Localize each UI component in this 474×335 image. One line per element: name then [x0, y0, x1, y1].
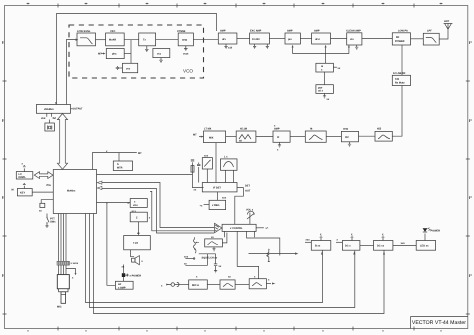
wire	[411, 38, 424, 40]
svg-text:Rx Mute: Rx Mute	[395, 82, 405, 85]
block: ceramic filter	[305, 128, 326, 143]
wire	[96, 39, 106, 41]
PTT switch	[45, 214, 56, 228]
block: battery save	[305, 236, 331, 250]
bus: LCD to CPU (hollow arrow)	[34, 172, 53, 179]
block: vco cap	[153, 49, 170, 63]
block: audio power amp	[115, 281, 133, 289]
wire	[207, 284, 220, 286]
svg-text:AMP: AMP	[287, 30, 293, 33]
block: antenna low-pass filter	[423, 30, 439, 45]
wire	[179, 284, 189, 286]
wire	[156, 39, 179, 41]
svg-text:MTR: MTR	[117, 167, 123, 170]
wire: VCO output to TX chain	[193, 39, 218, 41]
svg-text:LED xx: LED xx	[420, 245, 429, 248]
svg-text:xxx: xxx	[204, 154, 209, 157]
wire: T/R drop	[401, 45, 403, 75]
svg-text:VCO: VCO	[183, 69, 193, 74]
svg-text:LOW SGNL: LOW SGNL	[77, 30, 91, 33]
svg-text:L x: L x	[224, 156, 228, 159]
block: TX buffer 1	[218, 30, 237, 50]
svg-text:xxx: xxx	[306, 238, 311, 241]
svg-text:MvAR: MvAR	[109, 39, 116, 42]
wire	[326, 136, 341, 138]
wire: mixer IF drop to demod	[215, 143, 217, 183]
block: RX mixer	[193, 128, 226, 143]
svg-text:XTNNE: XTNNE	[177, 30, 186, 33]
squelch cap	[214, 254, 222, 273]
bus: CPU to synthesizer (hollow arrow)	[57, 114, 67, 170]
block: PL tone	[124, 232, 151, 250]
squelch contact 1	[184, 256, 218, 260]
bus: CPU to audio (3 nested lines)	[97, 181, 214, 233]
wire	[362, 38, 392, 40]
wire	[290, 136, 305, 138]
svg-text:POWER: POWER	[431, 230, 441, 233]
block: PLL synthesizer	[36, 105, 83, 114]
wire	[235, 284, 249, 286]
svg-text:DET: DET	[245, 185, 250, 188]
block: TX amp 3	[285, 30, 300, 44]
block: phase det	[98, 49, 131, 59]
crystal + cap left of demod	[191, 160, 204, 192]
svg-text:xGx: xGx	[133, 204, 138, 207]
svg-text:IF DET: IF DET	[213, 187, 221, 190]
wire mic to mod line	[266, 279, 275, 285]
wire: CPU right to demod	[97, 174, 193, 176]
svg-text:T/R: T/R	[395, 78, 399, 81]
wire	[256, 136, 273, 138]
wire: S-meter line	[93, 150, 143, 170]
svg-text:amp: amp	[343, 128, 349, 131]
wire	[300, 38, 311, 40]
block: IF amp 1	[273, 125, 290, 152]
svg-text:OUT: OUT	[245, 190, 251, 193]
svg-text:x REG: x REG	[212, 204, 220, 207]
wire: det to audio amp drop	[107, 203, 116, 285]
svg-text:MT: MT	[98, 53, 102, 56]
ground below squelch filter	[212, 247, 215, 251]
wire to antenna	[439, 29, 448, 39]
wire: synth control line top loop	[57, 14, 217, 105]
svg-text:LPF: LPF	[427, 30, 432, 33]
svg-text:drvr: drvr	[315, 38, 320, 41]
svg-text:LT MX: LT MX	[204, 128, 212, 131]
svg-text:MT: MT	[193, 134, 197, 137]
wires below connector	[59, 265, 77, 279]
block: 455 filter	[375, 128, 392, 141]
svg-text:xxx: xxx	[184, 256, 189, 259]
mic jack symbol	[161, 282, 179, 287]
svg-text:POWER: POWER	[395, 40, 405, 43]
block: DC switch	[336, 236, 360, 250]
svg-text:CLEAN AMP: CLEAN AMP	[346, 30, 361, 33]
wires: CPU bottom to lower section	[86, 214, 386, 314]
svg-text:P0x: P0x	[47, 184, 52, 187]
wire	[226, 136, 237, 138]
svg-text:m x: m x	[132, 210, 137, 213]
svg-text:amp: amp	[182, 39, 188, 42]
svg-text:LOW PA: LOW PA	[398, 30, 408, 33]
svg-text:pha: pha	[112, 53, 117, 56]
svg-text:x xxxx: x xxxx	[71, 262, 79, 265]
power LED	[423, 228, 440, 241]
hatched arrow into volume block	[215, 223, 222, 232]
block: TX exciter	[250, 30, 270, 49]
block: mic filter	[220, 275, 235, 289]
squelch pot	[193, 237, 198, 250]
block: DC reg	[374, 236, 393, 250]
trimmer pot above demod	[202, 154, 212, 182]
svg-text:MIC: MIC	[57, 306, 62, 309]
svg-text:RF: RF	[396, 36, 400, 39]
wires below volume control	[225, 231, 280, 278]
svg-text:vcc: vcc	[157, 52, 162, 55]
block: LCD display	[16, 163, 33, 180]
svg-text:ctl x: ctl x	[318, 90, 324, 93]
wire PL to speaker	[131, 250, 135, 257]
CPU microcontroller	[47, 170, 97, 214]
wire arrow into synth top	[55, 102, 57, 105]
svg-text:vvv: vvv	[126, 67, 131, 70]
block: ALC detector	[316, 63, 341, 72]
block: T/R switch	[392, 72, 410, 86]
svg-text:DC x: DC x	[345, 245, 351, 248]
wire: VCO input from synthesizer	[67, 39, 79, 105]
block: IF demod IC	[202, 183, 237, 192]
svg-text:VECTOR VT-44 Master: VECTOR VT-44 Master	[412, 320, 466, 326]
wire: CPU aux left	[39, 200, 53, 213]
svg-text:xtal: xtal	[41, 117, 46, 120]
block: S meter	[113, 161, 132, 171]
svg-text:SWx: SWx	[50, 220, 56, 223]
mic plug body	[57, 275, 69, 309]
svg-text:vout: vout	[183, 53, 188, 56]
svg-text:xxx: xxx	[222, 197, 227, 200]
squelch gate transistor	[267, 249, 270, 262]
block: keypad	[12, 183, 54, 196]
svg-text:KEY: KEY	[20, 191, 25, 194]
squelch lever arc	[195, 249, 196, 254]
potentiometer VOL	[246, 209, 255, 225]
block: modulator	[106, 30, 125, 46]
svg-text:DC xx: DC xx	[377, 245, 385, 248]
audio line with arrow	[249, 252, 299, 254]
svg-text:AMP: AMP	[274, 128, 280, 131]
svg-text:VXO: VXO	[110, 30, 115, 33]
svg-text:DISPL: DISPL	[19, 176, 27, 179]
svg-text:B xx: B xx	[315, 245, 321, 248]
block: clean amp	[346, 30, 362, 50]
block: RSSI amp	[130, 199, 147, 208]
speaker	[132, 256, 144, 265]
block: VCO oscillator	[77, 30, 96, 46]
svg-text:VOL x: VOL x	[246, 209, 254, 212]
svg-text:MvMxx: MvMxx	[67, 190, 76, 193]
det out wire	[235, 185, 251, 225]
block: IF amp 2	[341, 128, 358, 147]
block: 4.5V regulator	[200, 192, 227, 210]
svg-text:AMP: AMP	[314, 30, 320, 33]
svg-text:AMP: AMP	[220, 30, 226, 33]
wire: CPU to RSSI box	[97, 202, 131, 204]
svg-text:x CONTRL: x CONTRL	[230, 227, 243, 230]
wire: T/R to IF strip	[392, 86, 402, 137]
block: LED driver	[416, 241, 435, 251]
title block	[411, 317, 468, 329]
block: squelch filter	[205, 233, 227, 247]
wire	[237, 38, 250, 40]
svg-text:OUTPUT: OUTPUT	[72, 108, 83, 111]
cap 2 left of demod	[197, 163, 200, 183]
svg-text:xxx: xxx	[401, 242, 406, 245]
svg-text:xtl: xtl	[239, 140, 242, 143]
block: Tx buffer	[139, 33, 156, 51]
block: mic filter 2	[249, 275, 266, 289]
quad coil	[221, 156, 238, 183]
wire	[359, 135, 376, 137]
svg-text:45.1M: 45.1M	[240, 128, 247, 131]
block: mic amp	[189, 275, 208, 289]
block: crystal filter	[236, 128, 256, 143]
block: power control	[316, 72, 334, 101]
power cap	[122, 265, 142, 282]
svg-text:MT: MT	[138, 152, 142, 155]
block: divider	[116, 63, 138, 72]
svg-text:cln: cln	[350, 38, 354, 41]
block: TX driver	[312, 30, 331, 44]
svg-text:ANT: ANT	[444, 20, 450, 23]
block: final PA	[392, 30, 410, 45]
svg-text:flt: flt	[310, 128, 313, 131]
svg-text:455: 455	[377, 128, 382, 131]
svg-text:EXC AMP: EXC AMP	[250, 30, 262, 33]
wire	[360, 244, 374, 246]
block: buffer amp	[177, 30, 193, 56]
svg-text:MIC A: MIC A	[192, 284, 199, 287]
CPU ribbon to mic connector	[59, 214, 67, 262]
wire	[269, 38, 285, 40]
block: tone decode	[130, 210, 151, 236]
svg-text:x10: x10	[228, 47, 233, 50]
wire	[124, 40, 139, 64]
svg-text:x AMP: x AMP	[118, 286, 126, 289]
squelch contact 2	[184, 254, 216, 266]
block: volume control	[222, 224, 269, 231]
svg-text:x pa: x pa	[133, 242, 139, 245]
svg-text:12 LNE RF: 12 LNE RF	[393, 72, 406, 75]
wire: synth xtal pins	[41, 113, 56, 120]
label marks top of B/C	[320, 233, 384, 236]
svg-text:M: M	[12, 189, 14, 192]
svg-text:drv: drv	[222, 38, 227, 41]
crystal oscillator box	[45, 120, 55, 132]
svg-text:IF2: IF2	[345, 136, 349, 139]
mic connector hatched	[57, 261, 79, 265]
VCO dashed enclosure	[69, 25, 204, 78]
wire	[393, 242, 416, 246]
wire	[331, 38, 347, 40]
antenna	[444, 20, 453, 29]
svg-text:10.240: 10.240	[252, 38, 260, 41]
svg-text:x POWER: x POWER	[130, 275, 142, 278]
svg-text:pre: pre	[288, 38, 293, 41]
wire: ALC taps rail	[292, 45, 350, 63]
svg-text:MIX: MIX	[209, 136, 214, 139]
svg-text:xMvMxx: xMvMxx	[44, 108, 54, 111]
